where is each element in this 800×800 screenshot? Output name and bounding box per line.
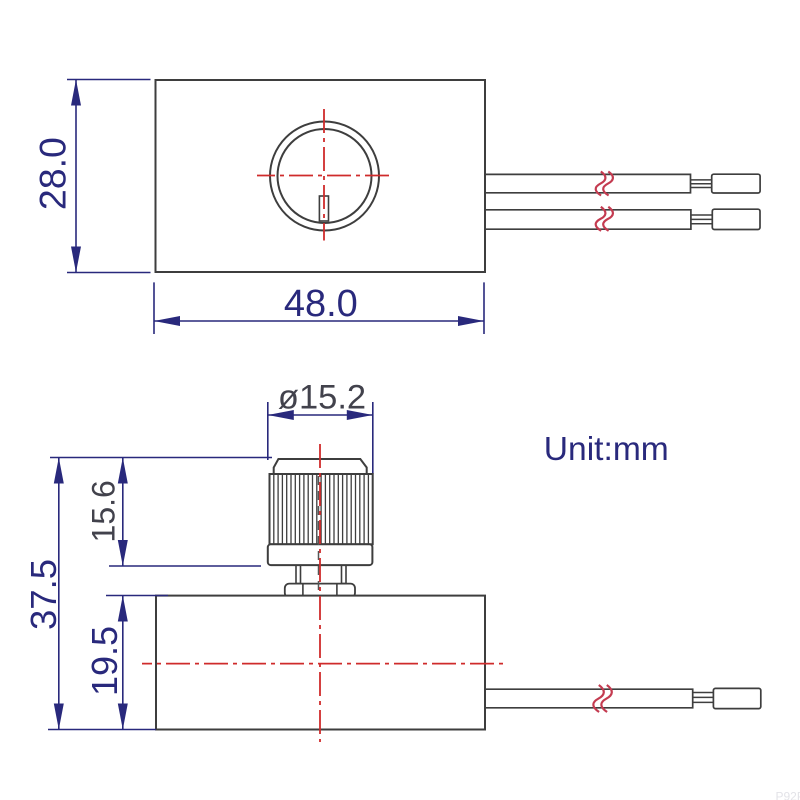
terminal T2 bbox=[712, 209, 760, 229]
dimension 28.0 arrows bbox=[71, 80, 81, 273]
dimension 37.5 line bbox=[58, 458, 60, 730]
dimension 19.5 line bbox=[122, 596, 124, 730]
hex nut facets bbox=[303, 584, 337, 598]
dimension 37.5/15.6 top extension line bbox=[50, 457, 272, 459]
break mark side wire bbox=[593, 685, 611, 712]
indicator slot bbox=[319, 196, 328, 221]
dimension 15.6 bottom extension line bbox=[109, 565, 261, 567]
side view wire strands bbox=[693, 693, 714, 703]
side view wire outline bbox=[485, 689, 693, 708]
svg-text:48.0: 48.0 bbox=[284, 283, 358, 325]
svg-text:P92P: P92P bbox=[776, 790, 800, 800]
dimension 48.0 line bbox=[154, 320, 484, 322]
shaft bushing bbox=[296, 565, 346, 584]
centerline vertical (side view) bbox=[319, 444, 321, 742]
dimension 28.0 extension lines bbox=[67, 80, 151, 273]
dimension 37.5/19.5 bottom extension line bbox=[48, 729, 156, 731]
svg-text:ø15.2: ø15.2 bbox=[278, 378, 366, 416]
knob hole outer circle bbox=[270, 122, 379, 231]
wire W2 stripped strands bbox=[691, 215, 712, 224]
dimension 48.0 arrows bbox=[154, 316, 484, 326]
svg-text:28.0: 28.0 bbox=[31, 137, 73, 210]
terminal T1 bbox=[712, 174, 760, 193]
dimension 48.0 extension lines bbox=[154, 282, 484, 334]
side view terminal bbox=[713, 688, 760, 708]
dimension ø15.2 line bbox=[268, 414, 373, 416]
knob knurled body bbox=[270, 474, 373, 544]
break mark wire W1 bbox=[596, 172, 613, 196]
dimension 19.5 arrows bbox=[118, 596, 128, 730]
knob base skirt bbox=[268, 544, 373, 565]
wire W1 top outline bbox=[485, 174, 691, 192]
hex nut bbox=[285, 584, 355, 598]
centerline vertical (top view) bbox=[323, 109, 325, 241]
knob cap (side view) bbox=[274, 459, 367, 474]
svg-text:37.5: 37.5 bbox=[23, 559, 64, 630]
dimension ø15.2 extension lines bbox=[268, 402, 373, 474]
side view body outline bbox=[156, 596, 485, 730]
knurl lines bbox=[274, 474, 369, 544]
wire W1 stripped strands bbox=[691, 180, 712, 188]
top view body outline bbox=[156, 80, 486, 272]
svg-text:15.6: 15.6 bbox=[85, 480, 121, 542]
dimension ø15.2 arrows bbox=[268, 410, 373, 420]
break mark wire W2 bbox=[596, 207, 613, 231]
knob hole inner circle bbox=[278, 129, 372, 223]
dimension 15.6 line bbox=[122, 458, 124, 567]
wire W2 outline bbox=[485, 210, 691, 229]
dimension 28.0 line bbox=[75, 80, 77, 273]
centerline horizontal (top view) bbox=[257, 175, 390, 177]
dimension 15.6 arrows bbox=[118, 458, 128, 567]
svg-text:19.5: 19.5 bbox=[84, 626, 125, 696]
centerline horizontal (side view) bbox=[142, 663, 503, 665]
svg-text:Unit:mm: Unit:mm bbox=[544, 431, 669, 468]
dimension 19.5 top extension line bbox=[106, 595, 168, 597]
dimension 37.5 arrows bbox=[54, 458, 64, 730]
hidden line (shaft inside knob) bbox=[318, 476, 320, 596]
